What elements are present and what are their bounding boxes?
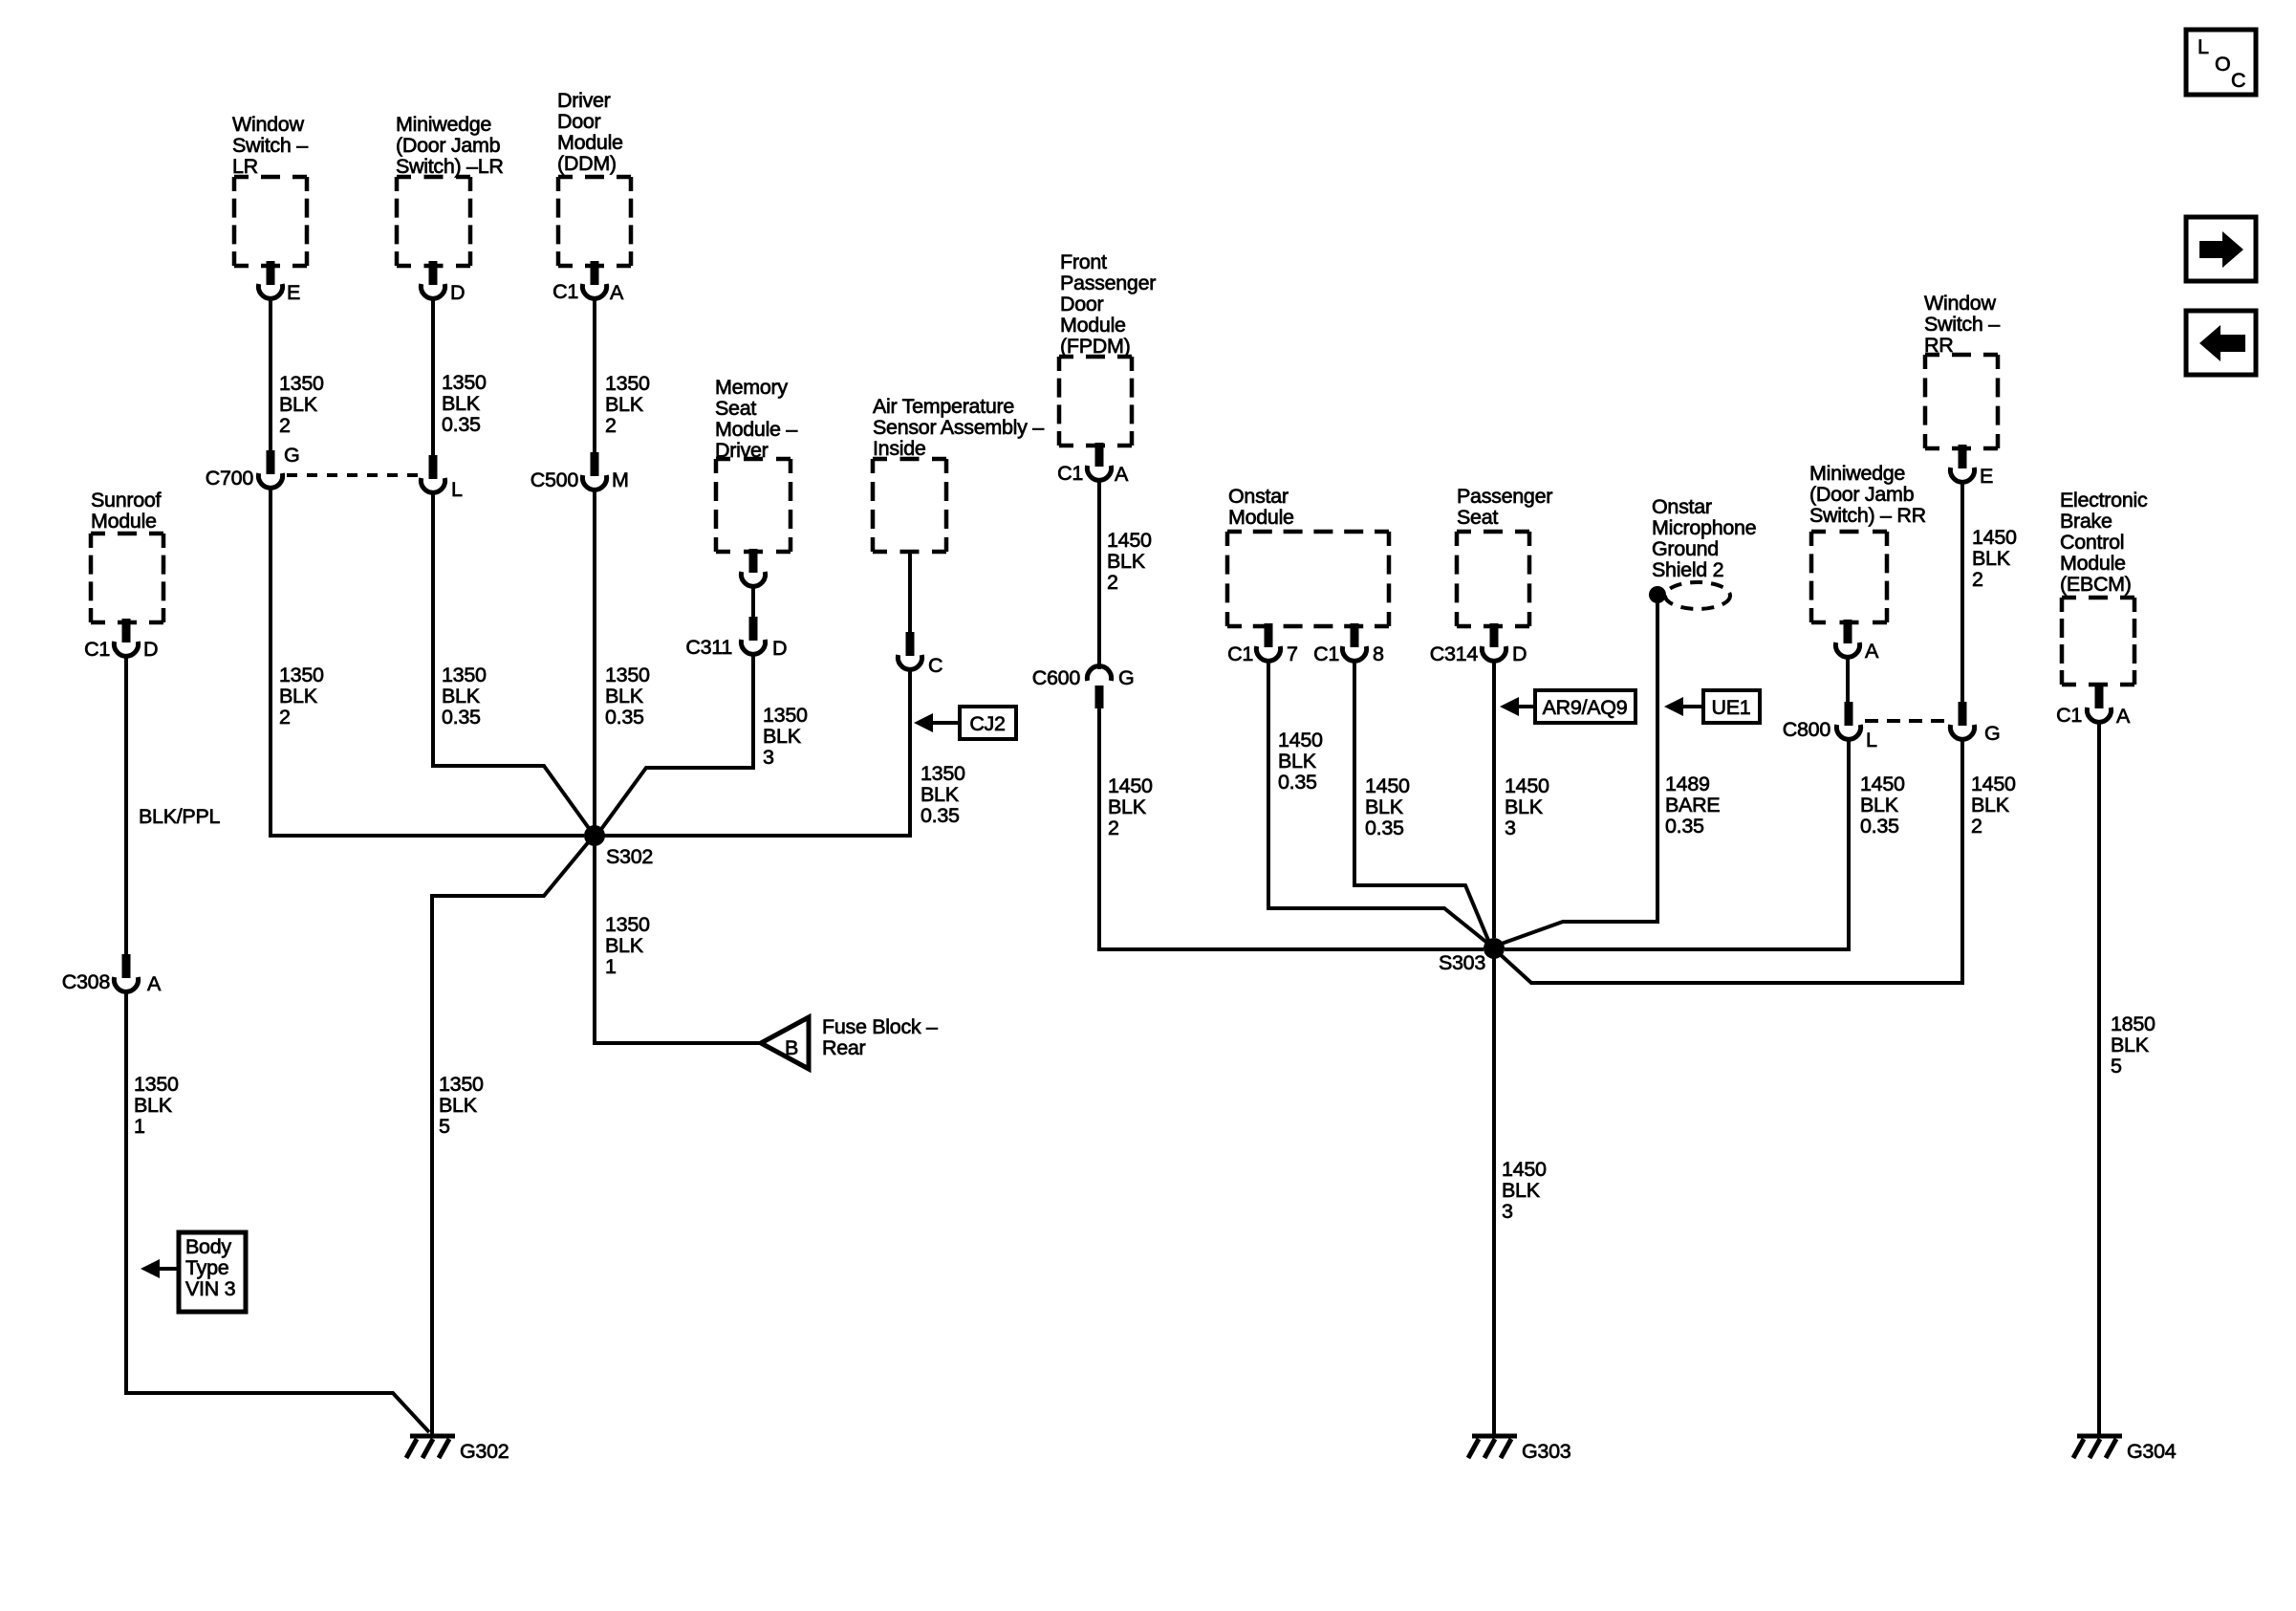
connector of Memory Seat Module (741, 549, 765, 586)
svg-text:BLK: BLK (605, 685, 644, 708)
svg-text:3: 3 (1505, 816, 1516, 839)
module Window Switch LR (232, 113, 308, 266)
svg-text:Inside: Inside (873, 437, 926, 460)
svg-text:Passenger: Passenger (1457, 485, 1552, 508)
svg-text:L: L (1866, 729, 1877, 751)
svg-text:Module: Module (91, 510, 157, 533)
svg-text:Door: Door (557, 110, 601, 133)
wire (memory seat to C311) (751, 586, 755, 623)
svg-text:BLK: BLK (921, 783, 960, 806)
svg-text:Microphone: Microphone (1652, 516, 1756, 539)
svg-text:Seat: Seat (715, 397, 756, 420)
connector C314 pin D of Passenger Seat (1430, 623, 1527, 665)
svg-text:Fuse Block –: Fuse Block – (822, 1015, 938, 1038)
svg-text:BLK: BLK (1365, 795, 1404, 818)
wire BLK/PPL (Sunroof to C308) (126, 656, 220, 962)
wire 1350 BLK 2 (DDM to C500) (595, 298, 650, 459)
svg-text:AR9/AQ9: AR9/AQ9 (1543, 696, 1628, 719)
connector C1 pin A of FPDM (1057, 443, 1129, 486)
splice S303 (1439, 938, 1505, 974)
svg-text:2: 2 (605, 414, 617, 437)
svg-text:0.35: 0.35 (442, 413, 481, 436)
dashed connector link C800 to RR G (1865, 719, 1947, 723)
module Front Passenger Door Module (FPDM) (1059, 250, 1156, 446)
svg-text:Control: Control (2060, 531, 2124, 554)
wire 1450 BLK 2 (Window Switch RR to G) (1962, 482, 2017, 709)
svg-text:B: B (785, 1036, 798, 1059)
connector pin E of Window Switch RR (1950, 445, 1993, 488)
svg-text:A: A (147, 972, 162, 995)
node Onstar Microphone Ground Shield 2 (1649, 495, 1756, 609)
svg-text:(EBCM): (EBCM) (2060, 573, 2132, 596)
svg-text:C1: C1 (1313, 642, 1339, 665)
svg-text:BARE: BARE (1665, 794, 1720, 816)
wire (air temp sensor to C) (908, 552, 912, 639)
svg-text:CJ2: CJ2 (969, 712, 1005, 735)
ground G303 (1468, 1436, 1571, 1463)
module Miniwedge (Door Jamb Switch) LR (396, 113, 504, 266)
svg-text:Passenger: Passenger (1060, 272, 1156, 294)
connector C308 pin A (62, 954, 162, 995)
svg-text:Sensor Assembly –: Sensor Assembly – (873, 416, 1044, 439)
svg-text:BLK: BLK (1502, 1179, 1541, 1202)
module Driver Door Module (DDM) (557, 89, 631, 266)
wire 1350 BLK 0.35 (C500 to S302) (595, 490, 650, 825)
svg-text:Onstar: Onstar (1652, 495, 1712, 518)
svg-text:1450: 1450 (1107, 529, 1152, 552)
wire 1350 BLK 0.35 (C to S302) (595, 669, 965, 836)
connector pin E of Window Switch LR (258, 261, 300, 304)
legend box arrow left (2186, 311, 2256, 375)
svg-text:Ground: Ground (1652, 537, 1719, 560)
svg-text:E: E (1980, 465, 1993, 488)
svg-text:Door: Door (1060, 293, 1104, 316)
reference box AR9/AQ9 with arrow (1500, 690, 1635, 723)
svg-text:1350: 1350 (605, 664, 650, 686)
svg-text:Switch) –LR: Switch) –LR (396, 155, 504, 178)
connector pin D of Miniwedge LR (421, 261, 465, 304)
svg-text:8: 8 (1373, 642, 1384, 665)
module Sunroof Module (91, 489, 163, 622)
svg-text:1350: 1350 (605, 913, 650, 936)
svg-text:BLK: BLK (442, 685, 481, 708)
svg-text:2: 2 (279, 414, 291, 437)
svg-text:BLK: BLK (1505, 795, 1544, 818)
svg-text:3: 3 (1502, 1200, 1513, 1223)
svg-text:1350: 1350 (279, 372, 324, 395)
svg-text:(DDM): (DDM) (557, 152, 617, 175)
svg-text:(Door Jamb: (Door Jamb (396, 134, 501, 157)
svg-text:BLK: BLK (442, 392, 481, 415)
svg-text:Switch –: Switch – (1924, 313, 2000, 336)
svg-text:O: O (2215, 53, 2230, 76)
svg-text:G: G (1984, 722, 2000, 745)
svg-text:2: 2 (279, 706, 291, 729)
svg-text:E: E (287, 281, 300, 304)
wire 1350 BLK 0.35 (L to S302) (433, 492, 591, 831)
wire 1850 BLK 5 (EBCM to G304) (2099, 722, 2155, 1434)
svg-text:C1: C1 (84, 638, 110, 661)
connector pin L (C700) (421, 455, 463, 501)
reference box Body Type VIN 3 (141, 1232, 246, 1312)
svg-text:Window: Window (232, 113, 304, 136)
svg-text:1450: 1450 (1108, 774, 1153, 797)
wire 1489 BARE 0.35 (mic ground shield to S303) (1499, 600, 1720, 945)
svg-text:BLK: BLK (1108, 795, 1147, 818)
svg-text:Memory: Memory (715, 376, 788, 399)
svg-text:5: 5 (2111, 1055, 2122, 1078)
svg-text:S302: S302 (606, 845, 653, 868)
connector C1 pin 7 of Onstar Module (1227, 623, 1298, 665)
svg-text:BLK: BLK (763, 725, 802, 748)
svg-text:C1: C1 (2056, 704, 2082, 727)
module Air Temperature Sensor Assembly Inside (873, 395, 1044, 552)
svg-text:1350: 1350 (442, 371, 487, 394)
svg-text:C1: C1 (1057, 462, 1083, 485)
svg-text:1489: 1489 (1665, 773, 1710, 795)
svg-text:BLK/PPL: BLK/PPL (139, 805, 220, 828)
svg-text:Type: Type (185, 1256, 228, 1279)
svg-text:1450: 1450 (1505, 774, 1549, 797)
svg-text:1350: 1350 (921, 762, 965, 785)
connector C311 pin D (685, 617, 787, 660)
svg-text:A: A (1115, 463, 1129, 486)
svg-text:(FPDM): (FPDM) (1060, 335, 1130, 358)
svg-text:1350: 1350 (763, 704, 808, 727)
svg-text:C500: C500 (531, 468, 579, 491)
ground G304 (2073, 1436, 2177, 1463)
wire 1350 BLK 1 (C308 to G302) (126, 991, 429, 1432)
wire 1350 BLK 2 (Window Switch LR to C700) (271, 298, 324, 459)
wire 1450 BLK 3 (C314 to S303) (1494, 661, 1549, 938)
svg-text:C1: C1 (552, 280, 578, 303)
svg-text:2: 2 (1107, 571, 1118, 594)
svg-text:C308: C308 (62, 970, 111, 993)
svg-text:C: C (2231, 69, 2245, 92)
connector C600 pin G (1032, 666, 1135, 708)
svg-text:Seat: Seat (1457, 506, 1498, 529)
svg-text:2: 2 (1108, 816, 1119, 839)
svg-text:1850: 1850 (2111, 1012, 2155, 1035)
module Memory Seat Module Driver (715, 376, 797, 552)
wire 1450 BLK 2 (G to S303) (1499, 739, 2016, 983)
wire 1450 BLK 2 (FPDM to C600) (1099, 480, 1152, 669)
svg-text:1350: 1350 (605, 372, 650, 395)
svg-text:C: C (928, 654, 942, 677)
svg-text:Miniwedge: Miniwedge (396, 113, 491, 136)
wire 1350 BLK 3 (C311 to S302) (599, 654, 808, 832)
svg-text:D: D (772, 637, 787, 660)
connector C1 pin D of Sunroof Module (84, 619, 158, 661)
svg-text:2: 2 (1972, 568, 1983, 591)
svg-text:D: D (1512, 642, 1527, 665)
svg-text:Air Temperature: Air Temperature (873, 395, 1014, 418)
wire 1450 BLK 0.35 (Onstar pin 7 to S303) (1268, 661, 1488, 944)
svg-text:BLK: BLK (605, 393, 644, 416)
svg-text:A: A (610, 281, 624, 304)
svg-text:VIN 3: VIN 3 (185, 1277, 236, 1300)
svg-text:Switch) – RR: Switch) – RR (1809, 504, 1926, 527)
svg-text:0.35: 0.35 (1278, 771, 1317, 794)
legend box arrow right (2186, 217, 2256, 281)
svg-text:BLK: BLK (279, 685, 318, 708)
module Passenger Seat (1457, 485, 1552, 626)
svg-text:C311: C311 (685, 636, 732, 659)
svg-text:BLK: BLK (1972, 547, 2011, 570)
connector C1 pin 8 of Onstar Module (1313, 623, 1384, 665)
svg-text:Onstar: Onstar (1228, 485, 1289, 508)
svg-text:(Door Jamb: (Door Jamb (1809, 483, 1915, 506)
wire 1350 BLK 0.35 (Miniwedge LR to L) (433, 298, 487, 464)
svg-text:0.35: 0.35 (921, 804, 960, 827)
svg-text:1350: 1350 (442, 664, 487, 686)
splice S302 (584, 825, 653, 868)
svg-text:BLK: BLK (279, 393, 318, 416)
module Onstar Module (1227, 485, 1389, 626)
connector C700 pin G (206, 444, 300, 490)
dashed connector link C700 to C800-LR (287, 473, 419, 477)
svg-text:G304: G304 (2127, 1440, 2177, 1463)
svg-text:7: 7 (1287, 642, 1298, 665)
svg-text:C600: C600 (1032, 666, 1081, 689)
svg-text:Module: Module (557, 131, 623, 154)
svg-text:5: 5 (439, 1115, 450, 1138)
svg-text:BLK: BLK (1278, 750, 1317, 773)
svg-text:1450: 1450 (1365, 774, 1410, 797)
svg-text:1450: 1450 (1502, 1158, 1547, 1181)
svg-text:Switch –: Switch – (232, 134, 308, 157)
ground G302 (406, 1436, 509, 1463)
svg-text:1350: 1350 (279, 664, 324, 686)
svg-text:G303: G303 (1522, 1440, 1571, 1463)
svg-text:Front: Front (1060, 250, 1107, 273)
svg-text:BLK: BLK (1971, 794, 2010, 816)
svg-text:UE1: UE1 (1712, 696, 1751, 719)
svg-text:Module: Module (2060, 552, 2126, 575)
svg-text:0.35: 0.35 (442, 706, 481, 729)
svg-text:D: D (143, 638, 158, 661)
svg-text:Shield 2: Shield 2 (1652, 558, 1723, 581)
svg-text:1450: 1450 (1971, 773, 2016, 795)
svg-text:G: G (1118, 666, 1134, 689)
svg-text:Module: Module (1228, 506, 1294, 529)
svg-text:3: 3 (763, 746, 774, 769)
wire 1350 BLK 2 (C700 to S302) (271, 488, 584, 836)
wire 1450 BLK 3 (S303 to G303) (1494, 948, 1547, 1434)
svg-text:LR: LR (232, 155, 258, 178)
svg-text:G: G (284, 444, 299, 467)
svg-text:Rear: Rear (822, 1036, 866, 1059)
connector pin G (C800) (1950, 702, 2000, 745)
wire (Miniwedge RR A to C800) (1846, 657, 1850, 709)
svg-text:0.35: 0.35 (1665, 815, 1704, 838)
reference box UE1 with arrow (1664, 690, 1760, 723)
connector C1 pin A of DDM (552, 261, 624, 304)
svg-text:1350: 1350 (439, 1073, 484, 1096)
connector pin C (898, 632, 942, 677)
svg-text:0.35: 0.35 (1860, 815, 1899, 838)
svg-text:C314: C314 (1430, 642, 1479, 665)
connector pin A of Miniwedge RR (1835, 620, 1879, 663)
svg-text:BLK: BLK (1860, 794, 1899, 816)
svg-text:S303: S303 (1439, 951, 1485, 974)
svg-text:BLK: BLK (2111, 1034, 2150, 1056)
svg-text:1450: 1450 (1972, 526, 2017, 549)
module Electronic Brake Control Module (EBCM) (2060, 489, 2148, 685)
wire 1450 BLK 0.35 (C800 to S303) (1505, 739, 1905, 949)
svg-text:Module: Module (1060, 314, 1126, 337)
svg-text:Module –: Module – (715, 418, 797, 441)
module Window Switch RR (1924, 292, 2000, 448)
svg-text:1350: 1350 (134, 1073, 179, 1096)
connector C800 pin L (1783, 702, 1877, 751)
svg-text:C800: C800 (1783, 718, 1831, 741)
svg-text:0.35: 0.35 (605, 706, 644, 729)
connector C500 pin M (531, 452, 629, 491)
svg-text:BLK: BLK (1107, 550, 1146, 573)
svg-text:L: L (2198, 35, 2209, 58)
reference box CJ2 with arrow (914, 707, 1016, 739)
svg-text:Body: Body (185, 1235, 231, 1258)
svg-text:A: A (1865, 640, 1879, 663)
svg-text:BLK: BLK (439, 1094, 478, 1117)
svg-text:2: 2 (1971, 815, 1982, 838)
svg-text:Miniwedge: Miniwedge (1809, 462, 1905, 485)
svg-text:Sunroof: Sunroof (91, 489, 162, 512)
svg-text:1450: 1450 (1278, 729, 1323, 751)
svg-text:C1: C1 (1227, 642, 1253, 665)
svg-text:1450: 1450 (1860, 773, 1905, 795)
svg-text:L: L (451, 478, 463, 501)
svg-text:Electronic: Electronic (2060, 489, 2148, 512)
wire 1450 BLK 2 (C600 to S303) (1099, 708, 1484, 949)
wire 1350 BLK 5 (S302 to G302) (432, 840, 590, 1434)
svg-text:M: M (612, 468, 629, 491)
svg-text:C700: C700 (206, 467, 254, 490)
svg-text:1: 1 (605, 955, 617, 978)
svg-text:0.35: 0.35 (1365, 816, 1404, 839)
svg-text:BLK: BLK (134, 1094, 173, 1117)
svg-text:D: D (450, 281, 465, 304)
wire 1350 BLK 1 (S302 to Fuse Block Rear) (595, 825, 761, 1043)
svg-text:BLK: BLK (605, 934, 644, 957)
module Miniwedge (Door Jamb Switch) RR (1809, 462, 1926, 622)
svg-text:Brake: Brake (2060, 510, 2112, 533)
svg-text:G302: G302 (460, 1440, 509, 1463)
svg-text:Window: Window (1924, 292, 1996, 315)
legend box LOC (2186, 30, 2256, 95)
svg-text:A: A (2116, 705, 2131, 728)
svg-text:Driver: Driver (557, 89, 611, 112)
svg-text:1: 1 (134, 1115, 145, 1138)
connector C1 pin A of EBCM (2056, 685, 2131, 728)
terminal B Fuse Block Rear (761, 1015, 938, 1069)
wire 1450 BLK 0.35 (Onstar pin 8 to S303) (1354, 661, 1490, 945)
